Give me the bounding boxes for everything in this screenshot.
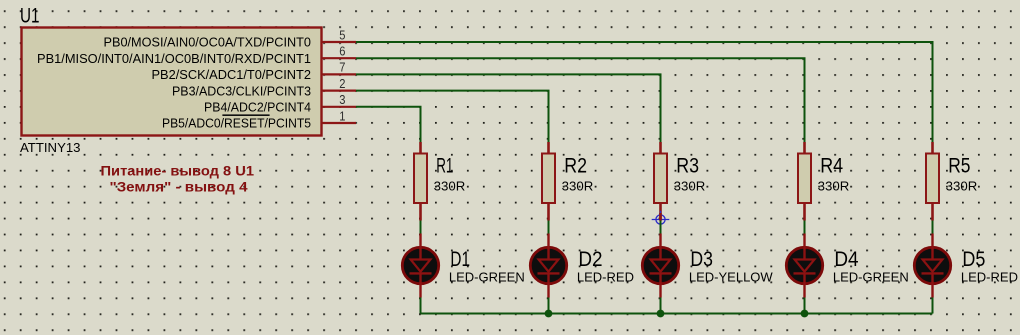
svg-text:R2: R2 <box>564 155 587 178</box>
wire R5 to D5 <box>932 221 934 234</box>
resistor R1 330R <box>414 142 427 221</box>
svg-text:330R: 330R <box>562 179 594 194</box>
svg-text:PB2/SCK/ADC1/T0/PCINT2: PB2/SCK/ADC1/T0/PCINT2 <box>152 67 312 82</box>
resistor R2 330R <box>542 142 555 221</box>
U1 pin 6 stub, number and name PB1/MISO/INT0/AIN1/OC0B/INT0/RXD/PCINT1 <box>37 44 356 66</box>
svg-text:LED-GREEN: LED-GREEN <box>833 270 909 285</box>
svg-text:7: 7 <box>339 60 345 75</box>
IC U1 ATTINY13 body <box>22 28 322 136</box>
LED D3 <box>642 234 678 298</box>
wire D4 cathode to bus <box>804 298 806 314</box>
svg-text:D5: D5 <box>962 248 985 271</box>
svg-text:PB3/ADC3/CLKI/PCINT3: PB3/ADC3/CLKI/PCINT3 <box>172 83 311 98</box>
svg-text:5: 5 <box>339 27 345 42</box>
U1 pin 1 stub, number and name PB5/ADC0/RESET/PCINT5 <box>162 108 356 130</box>
svg-text:Питание- вывод 8 U1: Питание- вывод 8 U1 <box>101 163 255 179</box>
svg-text:R1: R1 <box>436 155 453 178</box>
wire D5 cathode to bus <box>932 298 934 314</box>
wire D2 cathode to bus <box>548 298 550 314</box>
svg-text:LED-YELLOW: LED-YELLOW <box>689 270 774 285</box>
resistor R3 330R <box>654 142 667 221</box>
svg-text:D1: D1 <box>450 248 470 271</box>
wire D1 cathode to bus <box>420 298 422 314</box>
wire R3 to D3 <box>660 221 662 234</box>
LED D1 <box>402 234 438 298</box>
svg-text:D2: D2 <box>578 248 602 271</box>
U1 pin 2 stub, number and name PB3/ADC3/CLKI/PCINT3 <box>172 76 356 98</box>
junction dot at D4 column <box>801 310 809 318</box>
svg-text:PB0/MOSI/AIN0/OC0A/TXD/PCINT0: PB0/MOSI/AIN0/OC0A/TXD/PCINT0 <box>104 35 312 50</box>
U1 pin 3 stub, number and name PB4/ADC2/PCINT4 <box>204 92 356 114</box>
wire D3 cathode to bus <box>660 298 662 314</box>
resistor R5 330R <box>926 142 939 221</box>
wire R2 to D2 <box>548 221 550 234</box>
R3 lower lead over marker <box>659 213 662 221</box>
wire from U1 pin 7 to R3 <box>356 74 661 142</box>
svg-text:LED-RED: LED-RED <box>577 270 634 285</box>
svg-text:U1: U1 <box>20 5 40 28</box>
U1 pin 5 stub, number and name PB0/MOSI/AIN0/OC0A/TXD/PCINT0 <box>104 27 357 49</box>
common cathode bus wire <box>421 313 933 315</box>
blue origin marker near R3 lead <box>652 211 670 229</box>
svg-text:ATTINY13: ATTINY13 <box>20 140 81 155</box>
svg-text:3: 3 <box>339 92 345 107</box>
svg-text:"Земля" - вывод 4: "Земля" - вывод 4 <box>110 179 248 195</box>
svg-text:R3: R3 <box>676 155 699 178</box>
svg-text:PB4/ADC2/PCINT4: PB4/ADC2/PCINT4 <box>204 100 311 115</box>
svg-text:D4: D4 <box>834 248 858 271</box>
svg-text:R5: R5 <box>948 155 970 178</box>
wire R4 to D4 <box>804 221 806 234</box>
svg-text:LED-GREEN: LED-GREEN <box>449 270 525 285</box>
svg-text:2: 2 <box>339 76 345 91</box>
svg-text:330R: 330R <box>674 179 706 194</box>
svg-text:R4: R4 <box>820 155 843 178</box>
wire from U1 pin 3 to R1 <box>356 107 421 143</box>
LED D5 <box>914 234 950 298</box>
svg-text:1: 1 <box>339 108 345 123</box>
U1 pin 7 stub, number and name PB2/SCK/ADC1/T0/PCINT2 <box>152 60 357 82</box>
svg-text:330R: 330R <box>818 179 850 194</box>
wire from U1 pin 6 to R4 <box>356 58 805 142</box>
junction dot at D3 column <box>657 310 665 318</box>
LED D4 <box>786 234 822 298</box>
svg-text:PB5/ADC0/RESET/PCINT5: PB5/ADC0/RESET/PCINT5 <box>162 116 311 131</box>
wire from U1 pin 2 to R2 <box>356 91 549 143</box>
svg-text:D3: D3 <box>690 248 713 271</box>
svg-text:6: 6 <box>339 44 345 59</box>
svg-text:330R: 330R <box>434 179 466 194</box>
wire from U1 pin 5 to R5 <box>356 42 933 143</box>
junction dot at D2 column <box>545 310 553 318</box>
LED D2 <box>530 234 566 298</box>
wire R1 to D1 <box>420 221 422 234</box>
resistor R4 330R <box>798 142 811 221</box>
svg-text:LED-RED: LED-RED <box>961 270 1018 285</box>
svg-text:330R: 330R <box>946 179 978 194</box>
svg-text:PB1/MISO/INT0/AIN1/OC0B/INT0/R: PB1/MISO/INT0/AIN1/OC0B/INT0/RXD/PCINT1 <box>37 51 311 66</box>
